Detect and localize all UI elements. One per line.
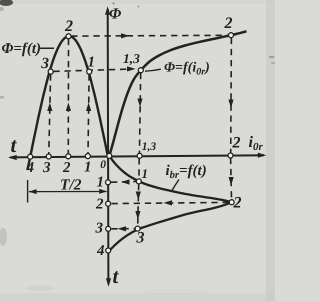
point 1 on flux wave (87, 69, 92, 74)
scan smudge top-left corner (0, 0, 13, 6)
dashed construction: horizontal from current point 1 to down-axis tick 1 (111, 181, 136, 184)
horizontal axis (t to the left, i0r to the right) (10, 155, 264, 157)
scan speck above axis (113, 3, 115, 5)
point 2 peak of flux wave (66, 34, 71, 39)
svg-text:T/2: T/2 (60, 177, 82, 194)
dashed construction: horizontal through points 3 and 1 toward point 1,3 (53, 69, 133, 71)
svg-text:Φ=f(t): Φ=f(t) (2, 41, 42, 57)
dashed construction: vertical from peak 2 down to axis tick 2 (67, 39, 69, 154)
dashed construction: horizontal from current point 3 to down-axis tick 3 (111, 228, 134, 230)
tick 2 on left t-axis (66, 154, 71, 159)
point 3 on flux wave (48, 69, 53, 74)
dashed construction: horizontal from peak 2 to magnetization point 2 (71, 34, 228, 37)
point 2 on magnetization curve (229, 33, 234, 38)
svg-text:Φ: Φ (109, 5, 121, 22)
svg-text:1: 1 (88, 55, 96, 71)
dashed construction: vertical from i0r tick 2 down to current tip 2 (230, 38, 233, 153)
svg-text:3: 3 (42, 160, 51, 176)
svg-text:1,3: 1,3 (142, 141, 157, 153)
svg-text:1: 1 (97, 175, 105, 191)
tick 2 on i0r-axis (228, 153, 233, 158)
tick 2 on down t-axis (106, 201, 111, 206)
tick 4 on left t-axis (28, 154, 33, 159)
point 3 on current curve (135, 226, 140, 231)
leader line for Phi=f(i0r) label (145, 69, 161, 71)
svg-text:3: 3 (136, 230, 145, 247)
T/2 dimension line with arrows (29, 191, 107, 193)
point 2 tip of current curve (229, 200, 234, 205)
dashed construction: horizontal from current tip 2 to down-axis tick 2 (112, 202, 229, 203)
vertical axis (Phi up, t down) (107, 9, 110, 284)
svg-text:4: 4 (26, 160, 35, 176)
tick 3 on left t-axis (46, 154, 51, 159)
svg-text:1: 1 (84, 160, 92, 176)
svg-text:3: 3 (40, 55, 49, 72)
svg-text:2: 2 (233, 195, 242, 212)
magnetization curve Phi=f(i0r) (109, 31, 246, 156)
svg-text:2: 2 (232, 135, 241, 152)
dashed construction: vertical from point 3 down to axis tick 3 (49, 74, 51, 154)
scan smudge left edge (0, 96, 4, 99)
origin node 0 (107, 153, 112, 158)
svg-text:2: 2 (62, 160, 71, 176)
flux half-wave curve Phi=f(t) (27, 36, 107, 170)
svg-text:3: 3 (95, 221, 104, 237)
subtle vignette washes (266, 0, 275, 301)
T/2 dimension left bar (27, 180, 29, 203)
svg-text:2: 2 (64, 18, 73, 35)
leader line for ibr=f(t) label (172, 180, 179, 191)
leader line for Phi=f(t) label (40, 47, 54, 49)
dashed construction: vertical between current points 1 and 3 (138, 184, 139, 226)
svg-text:2: 2 (224, 15, 233, 32)
dashed construction: vertical from point 1,3 down across axis to current point 1 (139, 73, 140, 153)
dashed construction: vertical from point 1 down to axis tick 1 (88, 74, 89, 154)
current curve ibr=f(t) lower branch (109, 202, 232, 251)
tick 1 on left t-axis (85, 154, 90, 159)
tick 3 on down t-axis (106, 226, 111, 231)
point 1,3 on magnetization curve (138, 68, 143, 73)
svg-text:2: 2 (95, 197, 104, 213)
current curve ibr=f(t) upper branch (109, 156, 232, 202)
svg-text:1: 1 (142, 166, 149, 181)
point 1 on current curve (136, 179, 141, 184)
node 1,3 crossing on i0r-axis (137, 153, 142, 158)
svg-text:4: 4 (96, 243, 105, 259)
svg-text:0: 0 (100, 159, 106, 171)
tick 4 on down t-axis (106, 248, 111, 253)
scan marks right edge (269, 56, 274, 58)
tick 1 on down t-axis (106, 180, 111, 185)
svg-text:1,3: 1,3 (123, 51, 140, 66)
